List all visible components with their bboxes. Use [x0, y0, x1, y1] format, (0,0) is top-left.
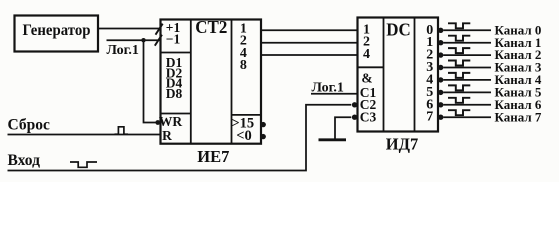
svg-text:Вход: Вход [8, 152, 41, 169]
svg-text:D8: D8 [166, 86, 183, 101]
svg-text:DC: DC [386, 20, 411, 40]
svg-text:Лог.1: Лог.1 [312, 81, 344, 96]
svg-text:<0: <0 [236, 128, 252, 144]
svg-text:СТ2: СТ2 [195, 17, 227, 37]
svg-text:R: R [162, 128, 172, 143]
svg-text:Генератор: Генератор [23, 22, 91, 39]
svg-text:ИЕ7: ИЕ7 [197, 147, 229, 166]
svg-text:&: & [361, 70, 372, 85]
svg-text:4: 4 [363, 47, 370, 62]
svg-text:WR: WR [159, 114, 183, 129]
svg-text:Сброс: Сброс [8, 116, 51, 133]
svg-text:Лог.1: Лог.1 [107, 43, 139, 58]
svg-text:ИД7: ИД7 [386, 135, 418, 154]
svg-text:8: 8 [240, 58, 247, 73]
svg-text:C3: C3 [360, 110, 377, 125]
svg-text:Канал 7: Канал 7 [495, 109, 542, 124]
svg-text:7: 7 [426, 110, 433, 125]
svg-text:−1: −1 [166, 31, 181, 46]
